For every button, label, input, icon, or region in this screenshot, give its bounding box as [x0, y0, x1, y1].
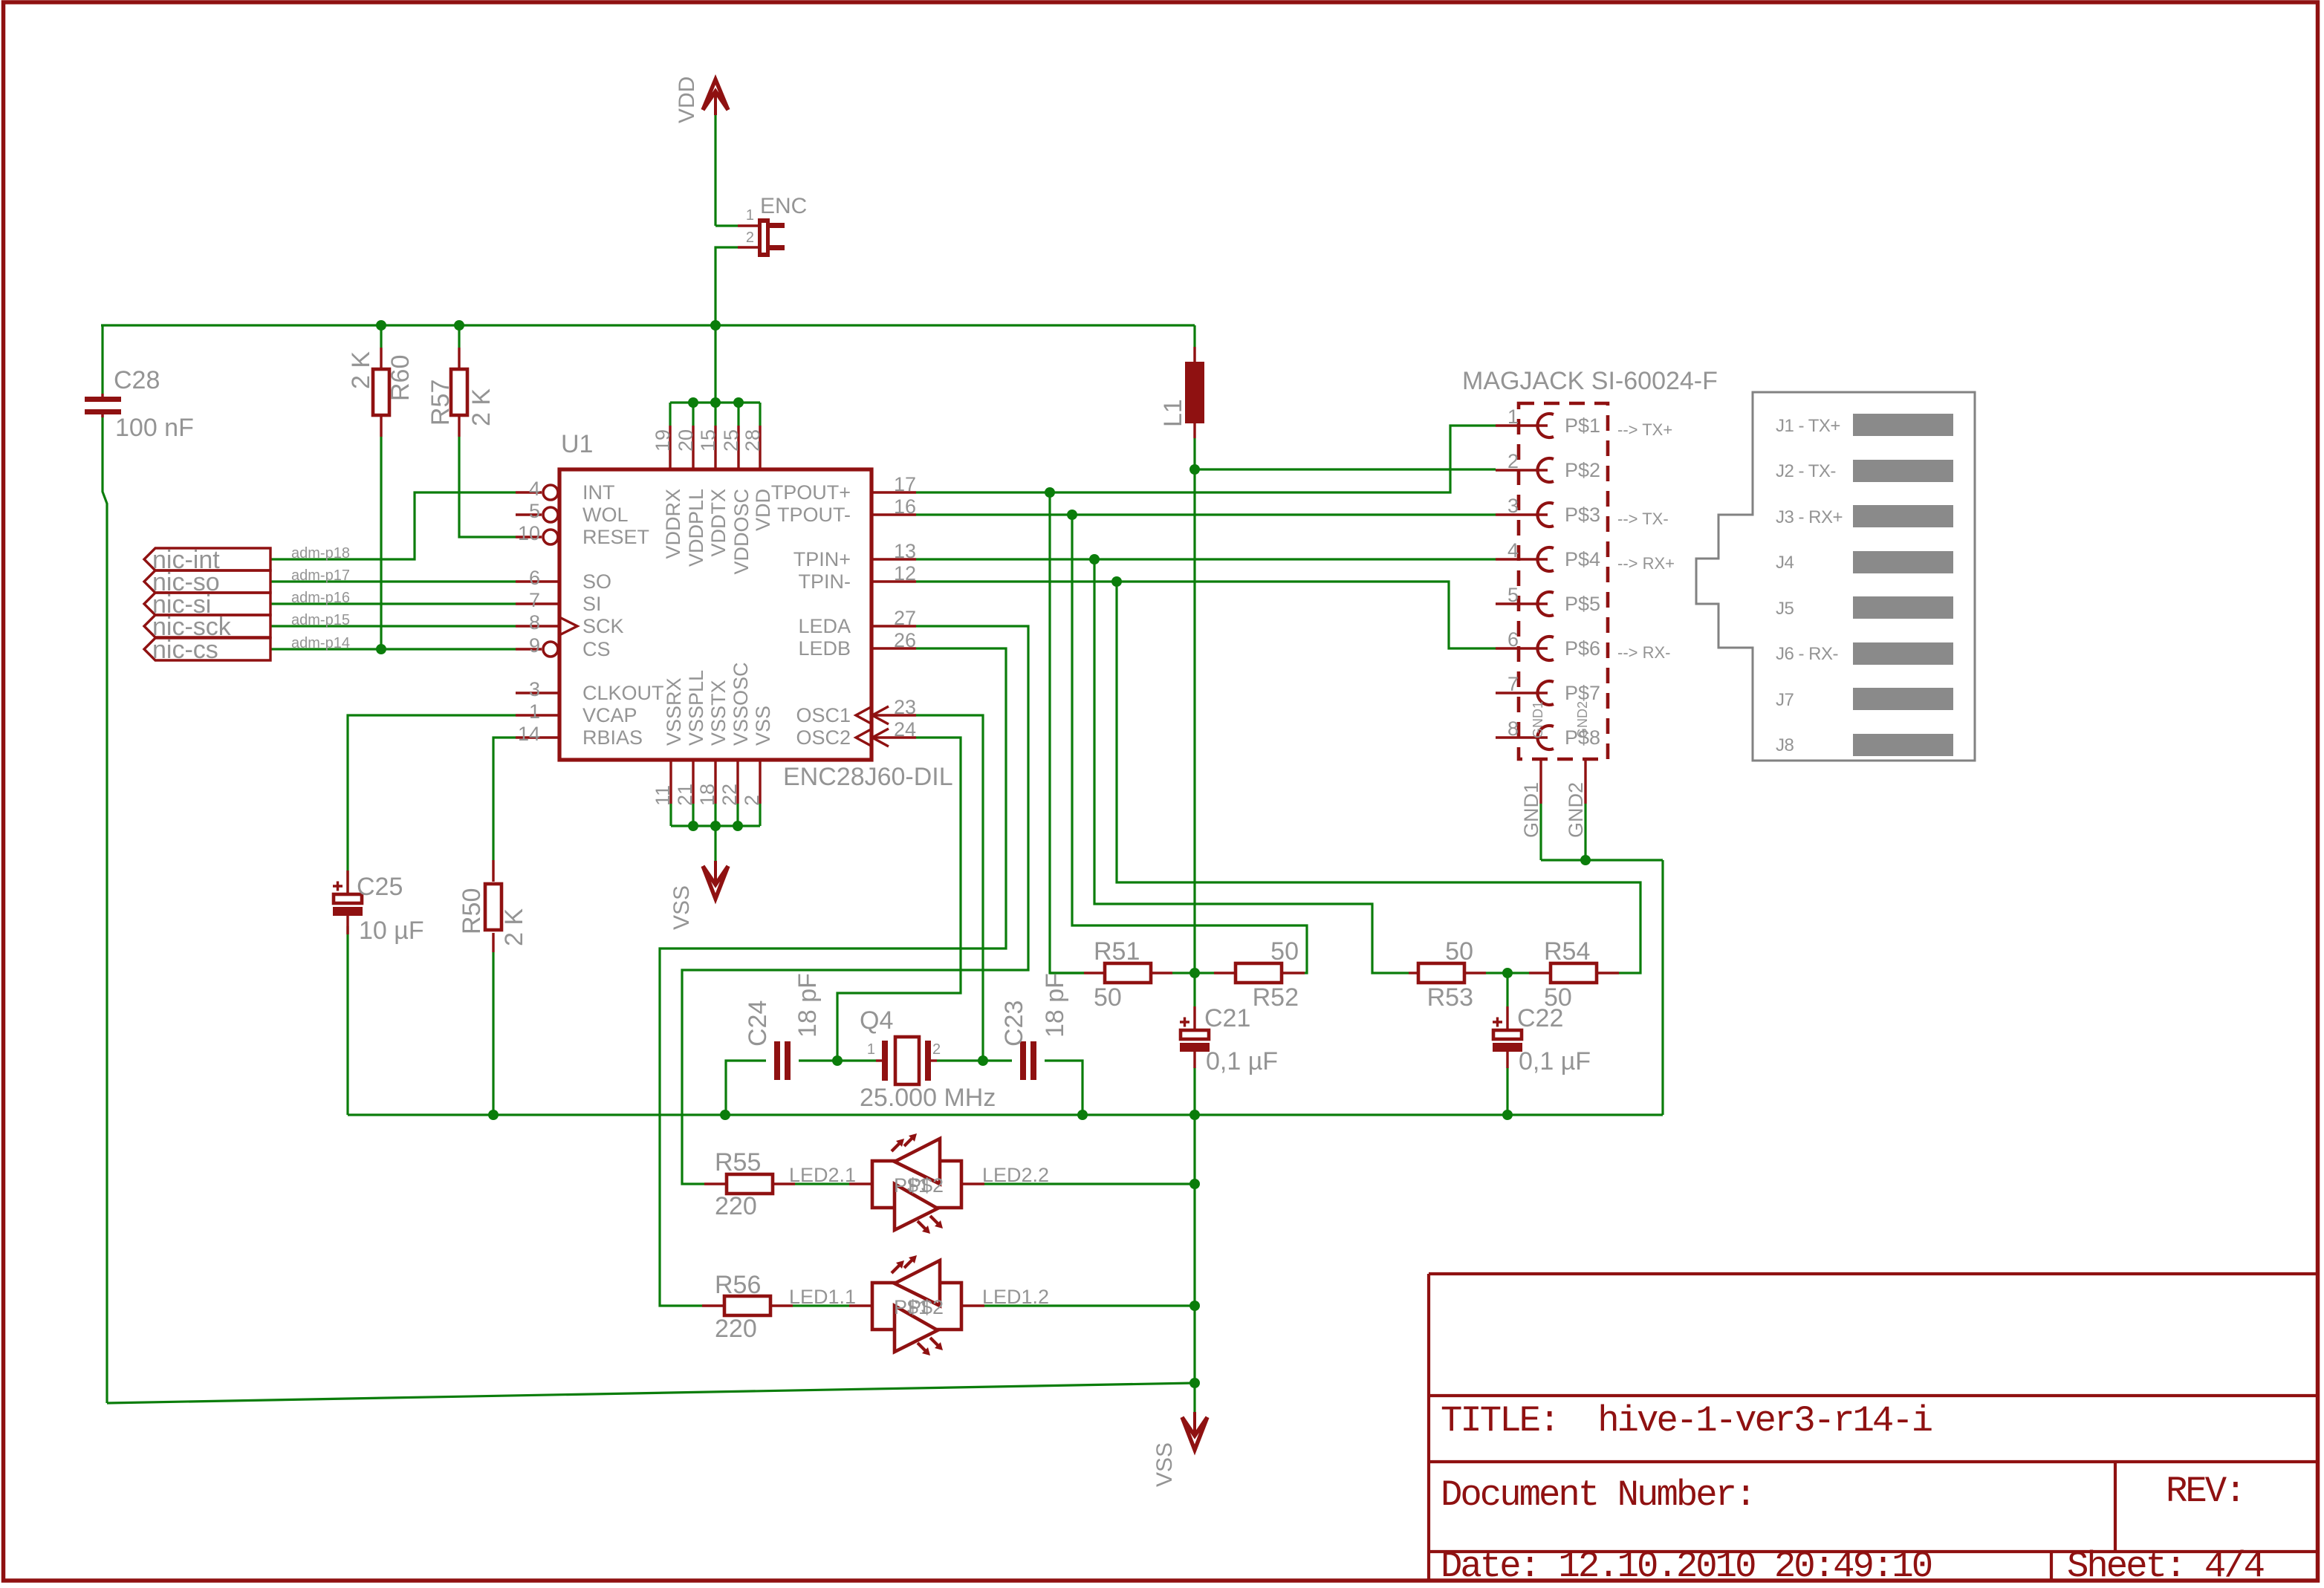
title block frame	[1429, 1274, 2317, 1581]
svg-text:3: 3	[529, 678, 540, 700]
ground VSS bottom	[1182, 1417, 1207, 1450]
node junction TPIN-/R54	[1111, 576, 1122, 587]
wire R52 right to TPOUT-	[1072, 515, 1307, 973]
connector pin P$7	[1496, 692, 1548, 694]
svg-text:50: 50	[1270, 937, 1299, 966]
svg-text:3: 3	[1507, 495, 1519, 517]
svg-text:TPOUT-: TPOUT-	[777, 504, 851, 526]
wire GND join horizontal	[1541, 859, 1663, 861]
svg-text:L1: L1	[1159, 399, 1187, 427]
svg-text:R52: R52	[1253, 983, 1299, 1012]
svg-text:P$3: P$3	[1565, 504, 1600, 526]
svg-text:12: 12	[894, 562, 916, 585]
inductor L1	[1193, 347, 1195, 362]
svg-text:LED1.1: LED1.1	[789, 1286, 856, 1308]
wire VDD vertical from arrow to ENC pin1	[714, 114, 716, 226]
node junction bottom rail / VSS stem	[1189, 1378, 1200, 1388]
svg-text:11: 11	[652, 785, 674, 806]
svg-text:0,1 µF: 0,1 µF	[1519, 1047, 1591, 1076]
wire VCAP to C25	[348, 715, 516, 894]
wire TPOUT+ to P$1	[916, 426, 1496, 492]
wire R60 top	[380, 325, 382, 348]
pin 14 RBIAS	[516, 736, 559, 738]
svg-text:2: 2	[741, 795, 763, 806]
wire nic-so to SO (adm-p17)	[270, 580, 516, 582]
svg-text:R55: R55	[715, 1148, 761, 1177]
wire C28 bottom down left side	[103, 414, 107, 1403]
resistor R51	[1050, 972, 1084, 974]
pin 24 OSC2	[871, 736, 916, 738]
pin 23 OSC1	[871, 714, 916, 716]
RJ45 pad J8	[1853, 734, 1953, 756]
svg-text:VCAP: VCAP	[582, 704, 637, 726]
svg-text:VDD: VDD	[675, 77, 699, 123]
wire TPIN- to P$6	[916, 582, 1496, 648]
wire VSS pins header below IC	[671, 824, 760, 827]
wire R57 top	[458, 325, 460, 348]
pin OSC2 clock marks	[856, 729, 872, 746]
wire LEDA to R55	[682, 626, 1028, 1184]
pin 5 WOL	[516, 513, 542, 515]
svg-text:adm-p16: adm-p16	[291, 590, 350, 606]
wire C25 bottom	[346, 926, 348, 1115]
bus entry nic-si	[144, 593, 270, 615]
svg-text:CLKOUT: CLKOUT	[582, 682, 664, 704]
node junction rail/R60	[376, 320, 386, 331]
svg-text:VSSOSC: VSSOSC	[730, 662, 752, 746]
svg-text:10 µF: 10 µF	[359, 917, 424, 945]
svg-text:LED1.2: LED1.2	[982, 1286, 1049, 1308]
svg-text:TPOUT+: TPOUT+	[771, 481, 851, 504]
wire L1 bottom to P$2	[1195, 468, 1496, 470]
svg-text:TPIN-: TPIN-	[799, 570, 851, 593]
jumper ENC	[738, 224, 758, 227]
wire R54 right to TPIN-	[1117, 582, 1640, 973]
svg-text:WOL: WOL	[582, 504, 629, 526]
svg-text:2: 2	[746, 230, 754, 246]
svg-text:C23: C23	[1000, 1000, 1028, 1047]
wire R57 bottom to RESET	[459, 437, 516, 537]
svg-text:2 K: 2 K	[500, 908, 528, 946]
svg-text:Document Number:: Document Number:	[1441, 1474, 1754, 1516]
wire bottom VSS rail (diagonal)	[107, 1383, 1195, 1403]
svg-text:25.000 MHz: 25.000 MHz	[860, 1084, 996, 1112]
wire nic-cs to CS (adm-p14)	[270, 648, 516, 650]
node junctions middle VSS rail	[488, 1110, 499, 1120]
capacitor C24	[774, 1041, 780, 1080]
svg-text:CS: CS	[582, 638, 611, 660]
svg-text:C24: C24	[744, 1000, 772, 1047]
node junction L1/P$2	[1189, 464, 1200, 475]
svg-text:--> RX+: --> RX+	[1617, 554, 1675, 573]
svg-text:J8: J8	[1776, 735, 1794, 755]
svg-text:P$4: P$4	[1565, 548, 1600, 570]
wire nic-sck to SCK (adm-p15)	[270, 625, 516, 627]
svg-text:Sheet: 4/4: Sheet: 4/4	[2067, 1546, 2264, 1587]
pin 11 VSSRX (bottom)	[669, 760, 672, 804]
pin 17 TPOUT+	[871, 491, 916, 493]
svg-text:50: 50	[1445, 937, 1473, 966]
svg-text:9: 9	[529, 634, 540, 657]
svg-text:R50: R50	[458, 888, 486, 934]
wire TPOUT+ branch down to R51	[1050, 492, 1084, 973]
wire R50 bottom	[492, 952, 494, 1115]
wire L1 bottom / center-tap feed	[1193, 438, 1195, 973]
svg-text:SCK: SCK	[582, 615, 624, 637]
RJ45 pad J4	[1853, 551, 1953, 573]
node junction TPIN+/R53	[1089, 554, 1100, 564]
svg-text:24: 24	[894, 718, 916, 741]
LED LED1	[849, 1304, 872, 1306]
svg-text:INT: INT	[582, 481, 615, 504]
node junction TPOUT-/R52	[1067, 510, 1077, 520]
svg-text:27: 27	[894, 607, 916, 629]
svg-text:18: 18	[696, 784, 718, 806]
svg-text:7: 7	[1507, 673, 1519, 695]
pin 22 VSSOSC (bottom)	[736, 760, 739, 804]
svg-text:1: 1	[1507, 406, 1519, 428]
node junction OSC1/Q4/C23	[978, 1055, 988, 1066]
wire GND2 down	[1584, 804, 1586, 860]
crystal Q4	[876, 1059, 885, 1061]
pin 27 LEDA	[871, 625, 916, 627]
svg-text:VSS: VSS	[669, 885, 694, 930]
RJ45 pad J2	[1853, 460, 1953, 482]
svg-text:C22: C22	[1517, 1004, 1563, 1032]
node junction R53/R54/C22	[1502, 968, 1513, 978]
svg-text:6: 6	[1507, 628, 1519, 651]
svg-text:P$2: P$2	[1565, 459, 1600, 481]
wire C21 top	[1193, 973, 1195, 1006]
svg-text:--> TX+: --> TX+	[1617, 420, 1672, 439]
capacitor C21	[1193, 1006, 1195, 1030]
node junctions on VSS pin header	[688, 821, 698, 831]
svg-text:R53: R53	[1427, 983, 1473, 1012]
pin 10 RESET	[516, 536, 542, 538]
pin 6 SO	[516, 580, 559, 582]
pin 28 VDD (top)	[759, 426, 761, 469]
node junction rail/R57	[454, 320, 464, 331]
svg-text:LEDA: LEDA	[798, 615, 851, 637]
pin OSC1 clock marks	[856, 706, 872, 724]
bus entry nic-cs	[144, 638, 270, 660]
resistor R55	[704, 1182, 727, 1185]
node junction OSC2/Q4/C24	[832, 1055, 843, 1066]
pin GND1 stub	[1539, 759, 1542, 804]
svg-text:22: 22	[718, 784, 741, 806]
wire OSC2 to crystal pin1	[837, 738, 961, 1061]
connector pin P$4	[1496, 558, 1548, 560]
svg-text:SO: SO	[582, 570, 611, 593]
svg-text:5: 5	[529, 500, 540, 522]
wire Q4 to C23	[937, 1059, 1012, 1061]
svg-text:1: 1	[867, 1041, 875, 1058]
svg-text:4: 4	[529, 478, 540, 500]
svg-text:25: 25	[720, 429, 742, 452]
svg-text:7: 7	[529, 589, 540, 611]
svg-text:C21: C21	[1204, 1004, 1250, 1032]
svg-text:adm-p14: adm-p14	[291, 635, 350, 651]
wire GND down to VSS rail	[1661, 860, 1664, 1115]
pin 26 LEDB	[871, 647, 916, 649]
svg-text:R60: R60	[386, 355, 415, 401]
resistor R52	[1214, 972, 1236, 974]
LED LED2	[849, 1182, 872, 1185]
pin 9 CS	[516, 648, 542, 650]
resistor R60	[380, 348, 382, 369]
svg-text:GND2: GND2	[1575, 701, 1590, 738]
svg-text:RBIAS: RBIAS	[582, 726, 643, 749]
svg-text:VSSTX: VSSTX	[707, 680, 730, 746]
svg-text:VSS: VSS	[752, 706, 774, 746]
wire VSS vertical from rail to bottom	[1193, 1115, 1195, 1383]
capacitor C22	[1506, 1006, 1508, 1030]
svg-text:GND1: GND1	[1531, 701, 1545, 738]
svg-text:20: 20	[675, 429, 697, 452]
node junction TPOUT+/R51	[1045, 487, 1055, 498]
svg-text:J5: J5	[1776, 599, 1794, 619]
svg-text:TITLE: hive-1-ver3-r14-i: TITLE: hive-1-ver3-r14-i	[1441, 1400, 1932, 1442]
wire nic-si to SI (adm-p16)	[270, 602, 516, 605]
RJ45 pad J1	[1853, 414, 1953, 436]
wire ENC pin2 branch	[715, 247, 738, 325]
wire VDD top rail	[101, 324, 1195, 326]
connector pin P$1	[1496, 424, 1548, 426]
svg-text:LED2.2: LED2.2	[982, 1164, 1049, 1186]
node junction GND1/GND2	[1580, 855, 1591, 865]
wire L1 top	[1193, 325, 1195, 347]
wire LED2 right	[984, 1182, 1195, 1185]
wire OSC1 to crystal pin2	[916, 715, 983, 1061]
RJ45 pad J5	[1853, 596, 1953, 619]
svg-text:28: 28	[741, 429, 764, 452]
svg-text:OSC2: OSC2	[796, 726, 851, 749]
svg-text:J1 - TX+: J1 - TX+	[1776, 416, 1840, 436]
capacitor C28	[101, 394, 103, 397]
node junction R60 / nic-cs	[376, 644, 386, 654]
resistor R54	[1529, 972, 1551, 974]
svg-text:OSC1: OSC1	[796, 704, 851, 726]
svg-text:GND2: GND2	[1565, 782, 1587, 838]
node junction LED1.2/VSS	[1189, 1301, 1200, 1311]
svg-text:C28: C28	[114, 366, 160, 394]
svg-text:220: 220	[715, 1315, 757, 1343]
svg-text:ENC: ENC	[760, 194, 807, 218]
svg-text:8: 8	[529, 611, 540, 634]
node junction LED2.2/VSS	[1189, 1179, 1200, 1189]
svg-text:P$6: P$6	[1565, 637, 1600, 660]
svg-text:R57: R57	[426, 380, 455, 426]
svg-text:4: 4	[1507, 539, 1519, 562]
pin 3 CLKOUT	[516, 692, 559, 694]
svg-text:Date: 12.10.2010 20:49:10: Date: 12.10.2010 20:49:10	[1441, 1546, 1932, 1587]
wire VSS stem bottom right	[1193, 1383, 1195, 1417]
svg-text:P$1: P$1	[1565, 414, 1600, 437]
svg-text:TPIN+: TPIN+	[793, 548, 851, 570]
svg-text:0,1 µF: 0,1 µF	[1206, 1047, 1278, 1076]
pin 12 TPIN-	[871, 580, 916, 582]
svg-text:17: 17	[894, 473, 916, 495]
wire VDD pins header	[670, 401, 760, 403]
wire R55 to LED2	[795, 1182, 849, 1185]
wire TPIN+ to P$4	[916, 558, 1496, 560]
svg-text:1: 1	[529, 700, 540, 723]
pin 21 VSSPLL (bottom)	[692, 760, 694, 804]
capacitor C25	[346, 871, 348, 894]
connector pin P$3	[1496, 513, 1548, 515]
svg-text:LED2.1: LED2.1	[789, 1164, 856, 1186]
node junctions on VDD pin header	[688, 397, 698, 408]
pin 7 SI	[516, 602, 559, 605]
svg-text:P$7: P$7	[1565, 682, 1600, 704]
connector pin P$8	[1496, 736, 1548, 738]
ground VSS below IC	[703, 866, 728, 899]
svg-text:Q4: Q4	[860, 1006, 893, 1035]
svg-text:26: 26	[894, 629, 916, 651]
svg-text:2: 2	[1507, 450, 1519, 472]
wire TPOUT- to P$3	[916, 513, 1496, 515]
svg-text:19: 19	[652, 429, 674, 452]
svg-text:adm-p15: adm-p15	[291, 612, 350, 628]
wire C24 left	[726, 1061, 766, 1115]
svg-text:2 K: 2 K	[467, 388, 496, 426]
svg-text:2 K: 2 K	[347, 351, 375, 389]
svg-text:R54: R54	[1544, 937, 1590, 966]
connector pin P$2	[1496, 469, 1548, 471]
RJ45 pad J6	[1853, 642, 1953, 665]
bus entry nic-so	[144, 570, 270, 593]
svg-text:21: 21	[674, 784, 696, 806]
node junction R51/R52/C21	[1189, 968, 1200, 978]
svg-text:P$2: P$2	[908, 1174, 944, 1197]
svg-text:18 pF: 18 pF	[793, 973, 822, 1038]
svg-text:VDDRX: VDDRX	[662, 489, 684, 559]
svg-text:VSSPLL: VSSPLL	[685, 670, 707, 746]
svg-text:adm-p18: adm-p18	[291, 545, 350, 562]
svg-text:nic-cs: nic-cs	[152, 636, 218, 664]
svg-text:220: 220	[715, 1192, 757, 1220]
svg-text:100 nF: 100 nF	[115, 414, 194, 442]
wire R56 to LED1	[793, 1304, 849, 1306]
wire C28 top	[101, 325, 103, 394]
resistor R56	[702, 1304, 724, 1306]
svg-text:15: 15	[697, 429, 719, 452]
connector pin P$5	[1496, 602, 1548, 605]
svg-text:J6 - RX-: J6 - RX-	[1776, 644, 1838, 664]
wire C24 to Q4	[799, 1059, 876, 1061]
svg-text:J3 - RX+: J3 - RX+	[1776, 507, 1843, 527]
power symbol VDD	[703, 79, 728, 110]
RJ45 jack outline	[1696, 392, 1975, 761]
wire R60 bottom to CS net	[380, 437, 382, 649]
svg-text:R51: R51	[1094, 937, 1140, 966]
connector pin P$6	[1496, 647, 1548, 649]
svg-text:adm-p17: adm-p17	[291, 567, 350, 584]
svg-text:J2 - TX-: J2 - TX-	[1776, 461, 1836, 481]
wire LED1 right	[984, 1304, 1195, 1306]
pin 4 INT	[516, 491, 542, 493]
connector MAGJACK SI-60024-F dashed outline	[1519, 403, 1608, 759]
wire middle VSS rail	[348, 1113, 1663, 1116]
wire GND1 down	[1539, 804, 1542, 860]
svg-text:10: 10	[518, 522, 540, 544]
pin 20 VDDPLL (top)	[692, 426, 694, 469]
pin 1 VCAP	[516, 714, 559, 716]
svg-text:MAGJACK SI-60024-F: MAGJACK SI-60024-F	[1462, 367, 1718, 395]
resistor R57	[458, 348, 460, 369]
RJ45 pad J3	[1853, 505, 1953, 527]
svg-text:REV:: REV:	[2166, 1471, 2245, 1512]
bus entry nic-int	[144, 548, 270, 570]
svg-text:C25: C25	[357, 873, 403, 901]
svg-text:--> RX-: --> RX-	[1617, 643, 1671, 662]
svg-text:14: 14	[518, 723, 540, 745]
svg-text:23: 23	[894, 696, 916, 718]
svg-text:ENC28J60-DIL: ENC28J60-DIL	[783, 763, 953, 791]
wire LEDB to R56	[660, 648, 1006, 1306]
RJ45 pad J7	[1853, 688, 1953, 710]
svg-text:18 pF: 18 pF	[1041, 973, 1069, 1038]
svg-text:1: 1	[746, 207, 754, 224]
wire nic-int to INT (adm-p18)	[270, 492, 516, 559]
pin 19 VDDRX (top)	[669, 426, 671, 469]
pin 8 SCK with clock mark	[516, 625, 559, 627]
wire RBIAS to R50	[493, 738, 516, 860]
svg-text:6: 6	[529, 567, 540, 589]
pin 15 VDDTX (top)	[714, 426, 716, 469]
pin 25 VDDOSC (top)	[737, 426, 739, 469]
svg-text:16: 16	[894, 495, 916, 518]
pin GND2 stub	[1584, 759, 1586, 804]
svg-text:50: 50	[1094, 983, 1122, 1012]
wire ENC pin1 branch	[715, 224, 738, 227]
wire R51-R52 middle	[1172, 972, 1214, 974]
svg-text:SI: SI	[582, 593, 602, 615]
node junction VDD rail / VDD symbol	[710, 320, 721, 331]
svg-text:J7: J7	[1776, 690, 1794, 710]
svg-text:R56: R56	[715, 1271, 761, 1299]
svg-text:13: 13	[894, 540, 916, 562]
svg-text:VDDTX: VDDTX	[707, 489, 730, 557]
svg-text:GND1: GND1	[1520, 782, 1542, 838]
pin 16 TPOUT-	[871, 513, 916, 515]
svg-text:P$5: P$5	[1565, 593, 1600, 615]
pin 13 TPIN+	[871, 558, 916, 560]
wire C23 right	[1045, 1061, 1083, 1115]
wire C22 top	[1506, 973, 1508, 1006]
svg-text:VDDPLL: VDDPLL	[685, 489, 707, 567]
svg-text:VDD: VDD	[752, 489, 774, 531]
svg-text:8: 8	[1507, 717, 1519, 740]
svg-text:VDDOSC: VDDOSC	[730, 489, 753, 575]
pin 18 VSSTX (bottom)	[714, 760, 716, 804]
svg-text:5: 5	[1507, 584, 1519, 606]
pin 2 VSS (bottom)	[759, 760, 761, 804]
svg-text:--> TX-: --> TX-	[1617, 510, 1669, 528]
svg-text:2: 2	[932, 1041, 941, 1058]
resistor R50	[492, 860, 494, 882]
wire R53-R54 middle	[1486, 972, 1529, 974]
op-amp U1 ENC28J60 IC body	[559, 469, 871, 760]
svg-text:U1: U1	[561, 430, 593, 458]
svg-text:VSS: VSS	[1152, 1442, 1177, 1487]
svg-text:LEDB: LEDB	[798, 637, 851, 660]
svg-text:VSSRX: VSSRX	[663, 677, 685, 746]
wire C21 bottom	[1193, 1067, 1195, 1115]
svg-text:J4: J4	[1776, 553, 1794, 573]
svg-text:RESET: RESET	[582, 526, 649, 548]
wire TPIN+ branch to R53	[1094, 559, 1409, 973]
